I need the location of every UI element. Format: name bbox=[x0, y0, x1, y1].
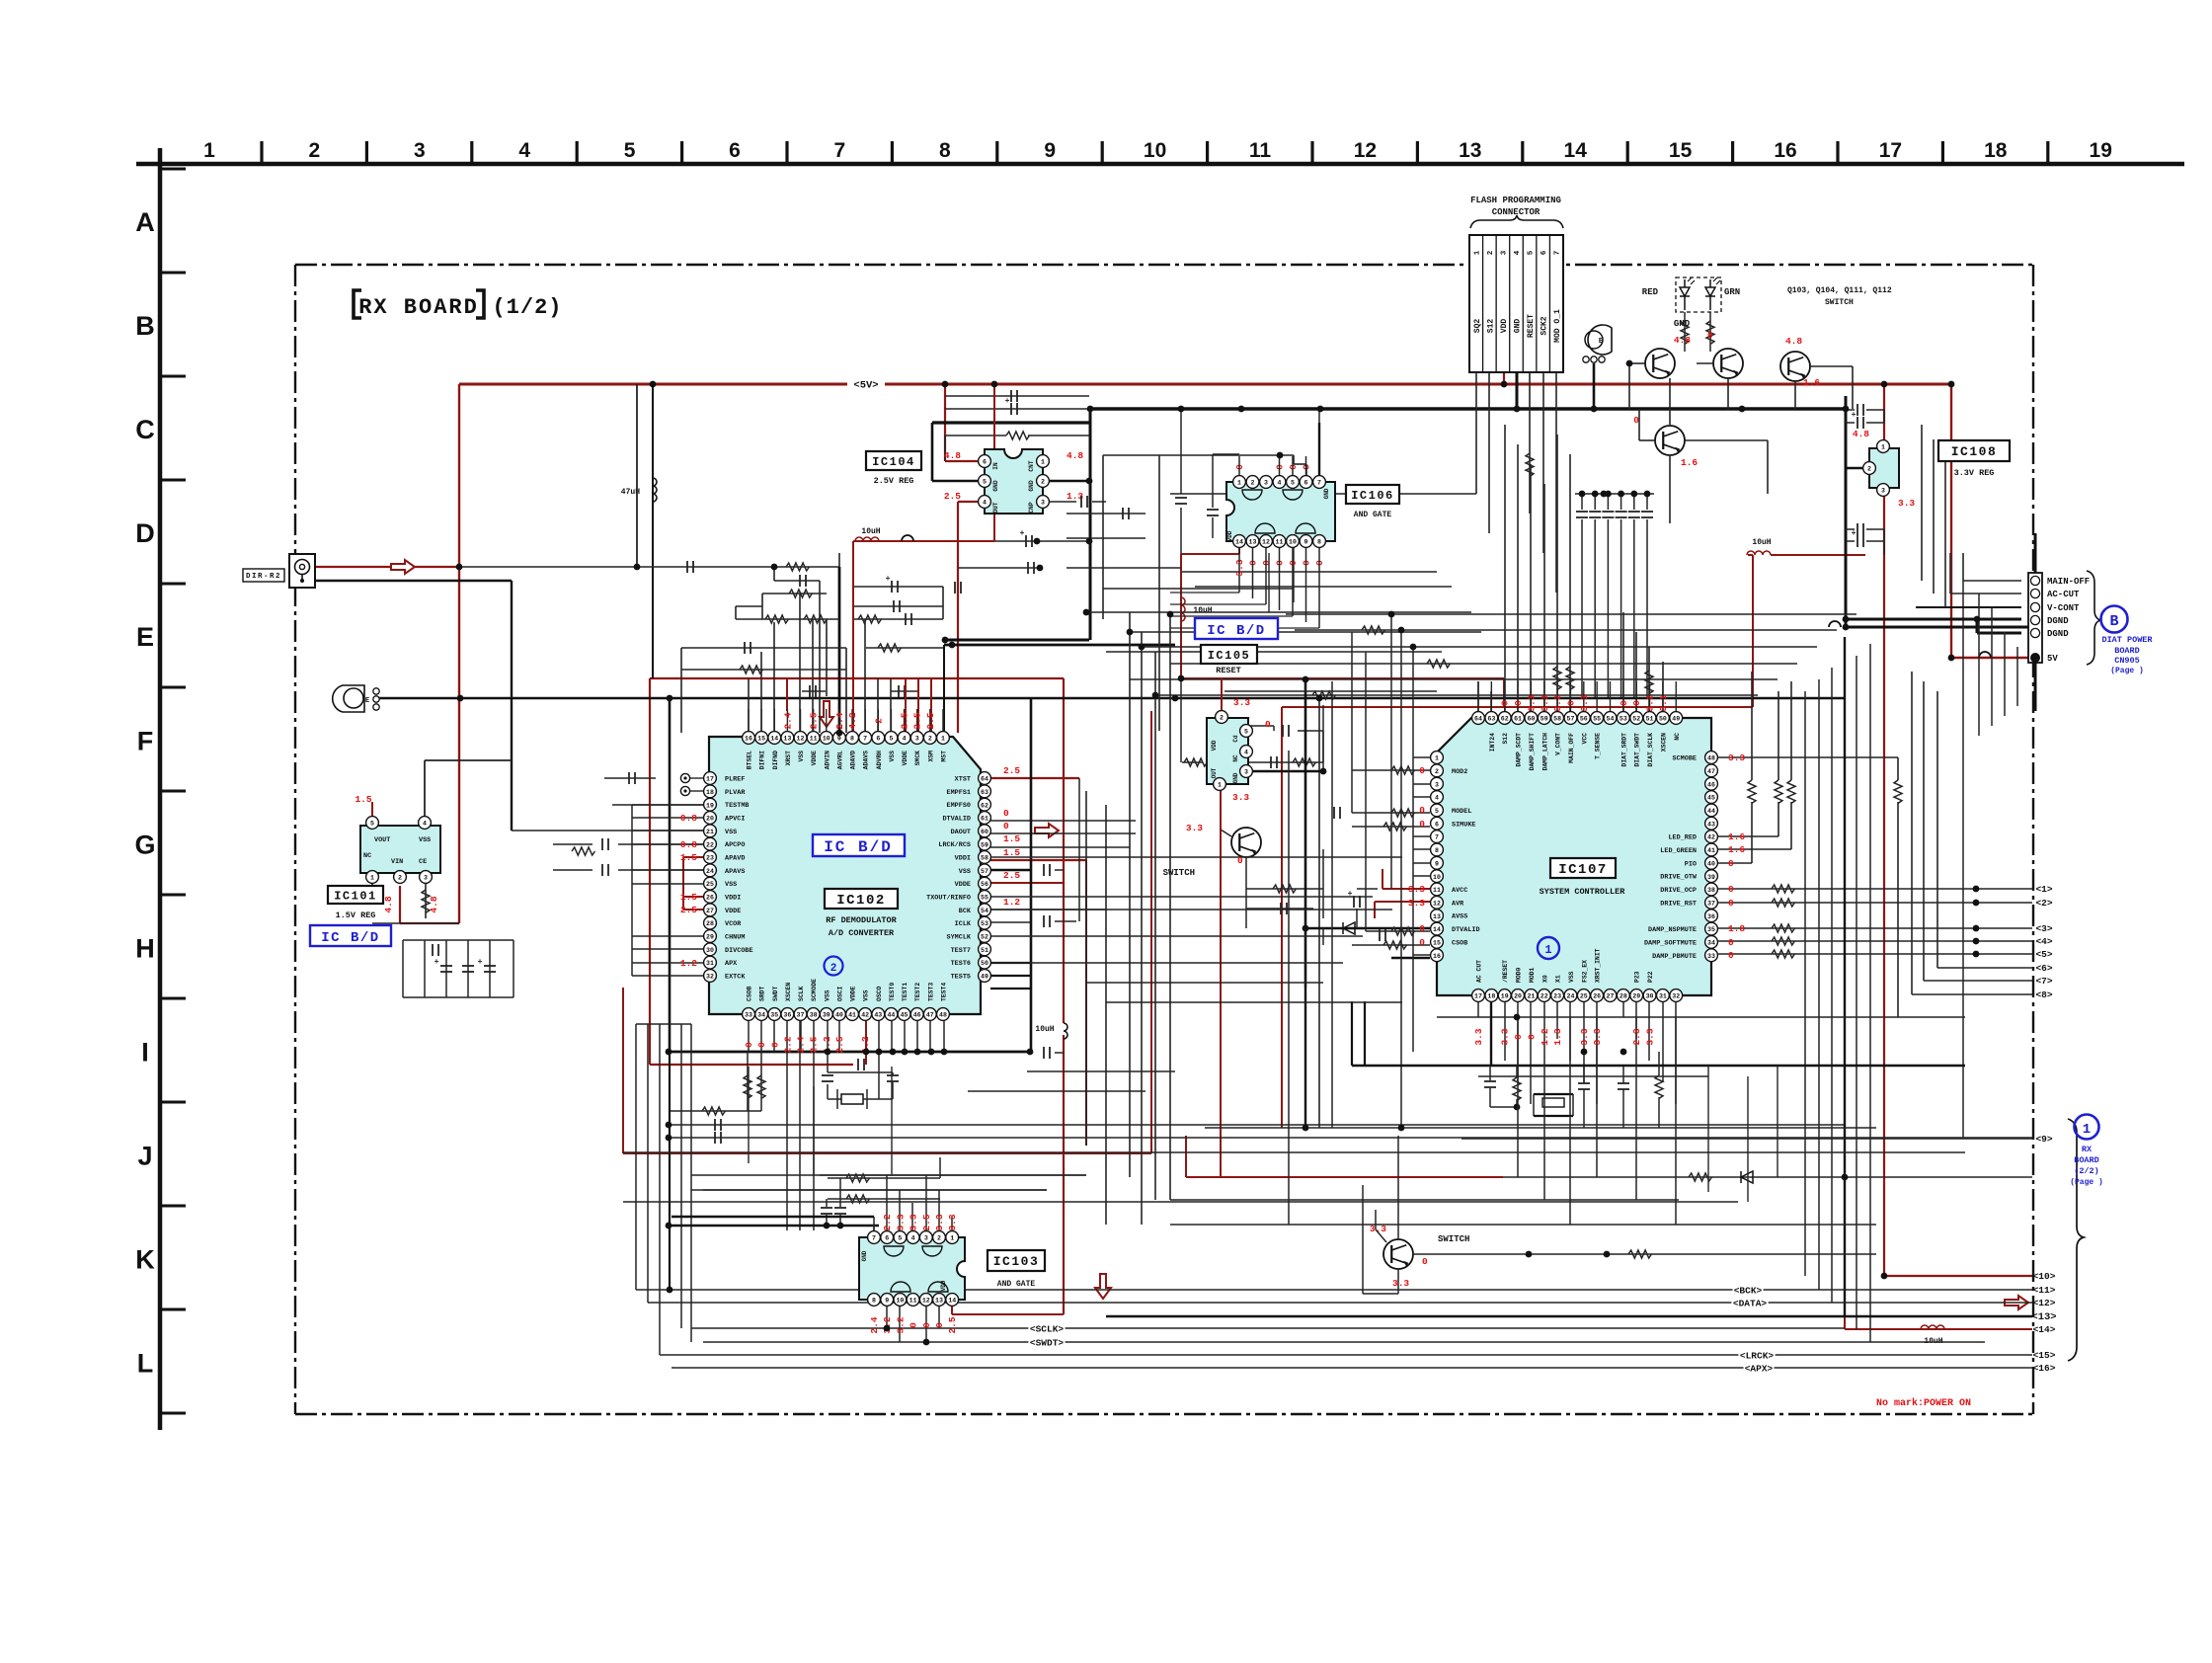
svg-text:0: 0 bbox=[1633, 415, 1639, 426]
svg-text:48: 48 bbox=[939, 1012, 947, 1019]
svg-text:9: 9 bbox=[885, 1298, 889, 1305]
svg-text:61: 61 bbox=[1514, 716, 1522, 723]
svg-text:SQ2: SQ2 bbox=[1473, 319, 1482, 334]
svg-text:10: 10 bbox=[896, 1298, 904, 1305]
5V power rail bbox=[459, 383, 1951, 386]
svg-text:29: 29 bbox=[706, 934, 714, 941]
svg-text:50: 50 bbox=[981, 960, 988, 967]
svg-text:SWITCH: SWITCH bbox=[1438, 1234, 1469, 1244]
svg-text:DIAT POWER: DIAT POWER bbox=[2101, 635, 2153, 645]
IC107 pins left bbox=[1431, 752, 1444, 764]
flash connector wires down bbox=[1475, 372, 1477, 494]
svg-text:16: 16 bbox=[1774, 139, 1796, 162]
wires left of IC102 bbox=[688, 777, 703, 779]
svg-text:4: 4 bbox=[423, 821, 427, 828]
svg-text:DGND: DGND bbox=[2047, 629, 2069, 639]
svg-text:EMPFS0: EMPFS0 bbox=[947, 802, 971, 810]
svg-text:SCLK: SCLK bbox=[798, 986, 805, 1001]
svg-text:8: 8 bbox=[939, 139, 951, 162]
svg-text:SRDT: SRDT bbox=[759, 986, 766, 1001]
svg-text:APCPO: APCPO bbox=[725, 841, 745, 849]
svg-text:10: 10 bbox=[823, 736, 830, 743]
svg-text:0: 0 bbox=[1728, 858, 1734, 869]
svg-text:DAMP_SCDT: DAMP_SCDT bbox=[1516, 733, 1523, 767]
svg-text:7: 7 bbox=[834, 139, 846, 162]
svg-text:42: 42 bbox=[1707, 834, 1715, 841]
svg-text:0: 0 bbox=[908, 1322, 919, 1328]
svg-text:TESTMB: TESTMB bbox=[725, 802, 749, 810]
svg-text:E: E bbox=[1599, 338, 1603, 346]
DIR-R2 black wire bbox=[315, 580, 512, 582]
svg-text:VSS: VSS bbox=[889, 751, 896, 762]
svg-text:VDD: VDD bbox=[1226, 530, 1233, 541]
CN905 connector bbox=[2028, 573, 2042, 663]
svg-text:11: 11 bbox=[810, 736, 818, 743]
IC107 pins right bbox=[1705, 752, 1718, 764]
svg-text:APVCI: APVCI bbox=[725, 815, 745, 823]
svg-text:DRIVE_RST: DRIVE_RST bbox=[1660, 900, 1697, 908]
svg-text:3.3: 3.3 bbox=[934, 1214, 945, 1230]
svg-text:GND: GND bbox=[992, 480, 999, 491]
svg-text:34: 34 bbox=[1707, 940, 1715, 947]
svg-text:5: 5 bbox=[889, 736, 893, 743]
svg-text:GND: GND bbox=[1232, 772, 1239, 783]
svg-text:CN905: CN905 bbox=[2114, 656, 2140, 666]
svg-text:11: 11 bbox=[1433, 887, 1441, 894]
svg-text:SYMCLK: SYMCLK bbox=[947, 933, 972, 941]
svg-text:IC101: IC101 bbox=[334, 889, 377, 903]
board title RX BOARD (1/2) bbox=[354, 290, 361, 318]
svg-text:0: 0 bbox=[744, 1042, 754, 1048]
svg-text:46: 46 bbox=[913, 1012, 921, 1019]
svg-text:Cd: Cd bbox=[1232, 735, 1239, 743]
svg-text:5: 5 bbox=[370, 821, 374, 828]
svg-text:37: 37 bbox=[797, 1012, 805, 1019]
svg-text:2.3: 2.3 bbox=[1631, 1028, 1642, 1045]
svg-text:35: 35 bbox=[1707, 926, 1715, 933]
red wire to conn 14 bbox=[1844, 1177, 1846, 1329]
svg-text:3.3: 3.3 bbox=[1408, 884, 1425, 895]
IC103 top feeders bbox=[873, 1217, 875, 1231]
svg-text:SCMOBE: SCMOBE bbox=[1673, 755, 1697, 763]
svg-text:12: 12 bbox=[922, 1298, 930, 1305]
svg-text:DRIVE_OCP: DRIVE_OCP bbox=[1660, 887, 1697, 895]
svg-text:2: 2 bbox=[937, 1235, 941, 1242]
svg-text:2.5: 2.5 bbox=[680, 905, 697, 915]
svg-text:SCMODE: SCMODE bbox=[811, 979, 818, 1001]
svg-text:0: 0 bbox=[921, 1322, 932, 1328]
svg-text:GND: GND bbox=[861, 1250, 868, 1261]
svg-text:63: 63 bbox=[981, 789, 988, 796]
verticals feeding left pins bbox=[1351, 632, 1353, 813]
svg-text:23: 23 bbox=[1553, 993, 1561, 1000]
svg-text:2: 2 bbox=[1435, 768, 1439, 775]
svg-text:TEST3: TEST3 bbox=[927, 983, 934, 1001]
svg-text:1.5: 1.5 bbox=[1003, 833, 1020, 844]
svg-text:IC B/D: IC B/D bbox=[1207, 623, 1265, 639]
LED indicator bbox=[1676, 277, 1721, 312]
svg-text:31: 31 bbox=[1659, 993, 1667, 1000]
svg-text:3.3: 3.3 bbox=[1579, 1028, 1590, 1045]
extra verticals right bundle bbox=[1978, 594, 1980, 736]
IC102 pins top bbox=[743, 732, 755, 745]
svg-text:X0: X0 bbox=[1541, 975, 1548, 983]
svg-text:1.2: 1.2 bbox=[1003, 897, 1020, 908]
svg-text:0: 0 bbox=[1422, 1256, 1428, 1267]
svg-text:1.6: 1.6 bbox=[1681, 457, 1698, 468]
svg-text:5: 5 bbox=[983, 479, 987, 486]
svg-text:FLASH PROGRAMMING: FLASH PROGRAMMING bbox=[1470, 196, 1561, 205]
wire red VDD flash bbox=[1503, 372, 1505, 384]
svg-text:2.5: 2.5 bbox=[809, 1036, 820, 1053]
svg-text:30: 30 bbox=[1646, 993, 1654, 1000]
svg-text:MAIN_OFF: MAIN_OFF bbox=[1568, 733, 1575, 763]
svg-text:<13>: <13> bbox=[2031, 1311, 2056, 1323]
svg-text:39: 39 bbox=[823, 1012, 830, 1019]
svg-text:XRST_INIT: XRST_INIT bbox=[1595, 948, 1602, 983]
svg-text:2.4: 2.4 bbox=[782, 712, 793, 729]
svg-text:3.3: 3.3 bbox=[1500, 1028, 1511, 1045]
red arrow DAOUT bbox=[1035, 824, 1059, 837]
svg-text:DAMP_SHIFT: DAMP_SHIFT bbox=[1529, 733, 1536, 771]
svg-text:9: 9 bbox=[837, 736, 841, 743]
wire mesh above IC102 bbox=[773, 567, 775, 581]
svg-text:4.8: 4.8 bbox=[1066, 450, 1083, 461]
svg-text:VDD: VDD bbox=[940, 1280, 947, 1291]
svg-text:8: 8 bbox=[850, 736, 854, 743]
svg-text:3: 3 bbox=[1435, 781, 1439, 788]
svg-text:8: 8 bbox=[872, 1298, 876, 1305]
red wire AVCC bbox=[1382, 888, 1430, 890]
svg-text:NC: NC bbox=[1674, 733, 1681, 741]
svg-text:PLREF: PLREF bbox=[725, 776, 745, 784]
svg-text:3.3: 3.3 bbox=[1898, 498, 1915, 509]
svg-text:42: 42 bbox=[861, 1012, 869, 1019]
svg-text:2.5: 2.5 bbox=[834, 1036, 845, 1053]
svg-text:19: 19 bbox=[1501, 993, 1509, 1000]
svg-text:3: 3 bbox=[1041, 500, 1045, 507]
svg-text:CNT: CNT bbox=[1028, 460, 1035, 471]
svg-text:43: 43 bbox=[874, 1012, 882, 1019]
svg-text:AND GATE: AND GATE bbox=[1354, 511, 1392, 519]
svg-text:IC B/D: IC B/D bbox=[824, 838, 893, 856]
svg-text:CSOB: CSOB bbox=[747, 986, 753, 1001]
svg-text:2: 2 bbox=[1220, 715, 1224, 722]
wires heading to bottom left bundle bbox=[669, 1052, 671, 1290]
svg-text:3: 3 bbox=[1881, 488, 1885, 495]
wire red IC108 out 3.3 bbox=[1883, 494, 1885, 1276]
svg-text:LED_RED: LED_RED bbox=[1668, 834, 1697, 842]
svg-text:0: 0 bbox=[1565, 700, 1576, 706]
IC102 pins bottom bbox=[743, 1008, 755, 1021]
svg-text:1.8: 1.8 bbox=[1728, 923, 1745, 934]
svg-text:4: 4 bbox=[1435, 795, 1439, 802]
svg-text:TEST6: TEST6 bbox=[951, 960, 971, 968]
svg-text:0: 0 bbox=[1728, 898, 1734, 909]
red wire IC105 reset rail bbox=[1180, 554, 1182, 678]
svg-text:+: + bbox=[1852, 411, 1856, 420]
svg-text:52: 52 bbox=[981, 934, 988, 941]
IC102 label bbox=[825, 889, 898, 909]
svg-text:MOD1: MOD1 bbox=[1529, 967, 1536, 983]
svg-text:10: 10 bbox=[1433, 874, 1441, 881]
E symbol top right bbox=[1588, 325, 1612, 355]
svg-text:36: 36 bbox=[1707, 913, 1715, 920]
svg-text:55: 55 bbox=[1593, 716, 1601, 723]
svg-text:3.2: 3.2 bbox=[895, 1316, 906, 1333]
wire red 3.3 coil net bbox=[1771, 554, 1865, 556]
svg-text:1.6: 1.6 bbox=[1803, 377, 1820, 388]
svg-text:1.2: 1.2 bbox=[680, 958, 697, 969]
svg-text:27: 27 bbox=[1607, 993, 1615, 1000]
svg-text:(2/2): (2/2) bbox=[2074, 1166, 2099, 1176]
IC101 wiring bbox=[371, 802, 373, 816]
svg-text:+: + bbox=[886, 575, 891, 584]
risers to CN905 rows bbox=[1921, 425, 1923, 581]
svg-text:<DATA>: <DATA> bbox=[1733, 1299, 1768, 1309]
cap row above IC107 bbox=[1575, 493, 1654, 495]
svg-text:60: 60 bbox=[1527, 716, 1535, 723]
svg-text:DIFND: DIFND bbox=[772, 751, 779, 769]
vertical feeders to top pins bbox=[748, 678, 750, 733]
red wire IC105 pin1 bbox=[1220, 790, 1222, 1177]
svg-text:13: 13 bbox=[1433, 913, 1441, 920]
svg-text:DIVCOBE: DIVCOBE bbox=[725, 947, 753, 955]
svg-text:0: 0 bbox=[769, 1042, 780, 1048]
svg-text:+: + bbox=[478, 958, 483, 967]
svg-text:MST: MST bbox=[940, 751, 947, 762]
svg-text:4.8: 4.8 bbox=[383, 896, 394, 912]
svg-text:XSCEN: XSCEN bbox=[1660, 733, 1667, 752]
svg-text:23: 23 bbox=[706, 855, 714, 862]
svg-text:IC102: IC102 bbox=[836, 893, 886, 909]
svg-text:0: 0 bbox=[1707, 330, 1713, 341]
svg-text:47: 47 bbox=[1707, 768, 1715, 775]
svg-text:37: 37 bbox=[1707, 900, 1715, 907]
svg-text:19: 19 bbox=[2090, 139, 2112, 162]
svg-text:1: 1 bbox=[950, 1235, 954, 1242]
wire red 5V to CN905 bbox=[1950, 384, 1952, 658]
svg-text:48: 48 bbox=[1707, 755, 1715, 762]
svg-text:3.3: 3.3 bbox=[1579, 694, 1590, 711]
svg-text:4.8: 4.8 bbox=[429, 896, 439, 912]
svg-text:VSS: VSS bbox=[1568, 971, 1575, 983]
svg-text:5: 5 bbox=[1291, 480, 1295, 487]
svg-text:13: 13 bbox=[1459, 139, 1481, 162]
svg-text:APAVS: APAVS bbox=[725, 868, 745, 876]
board outline frame bbox=[295, 264, 2033, 266]
svg-text:2: 2 bbox=[830, 963, 837, 975]
svg-text:2.5V REG: 2.5V REG bbox=[874, 476, 914, 486]
svg-text:4: 4 bbox=[983, 500, 987, 507]
svg-text:1.5: 1.5 bbox=[355, 794, 371, 805]
svg-text:21: 21 bbox=[1527, 993, 1535, 1000]
svg-text:EXTCK: EXTCK bbox=[725, 973, 746, 981]
svg-text:2.5: 2.5 bbox=[1003, 870, 1020, 881]
svg-text:0: 0 bbox=[1631, 700, 1642, 706]
svg-text:LRCK/RCS: LRCK/RCS bbox=[938, 841, 971, 849]
diode row bbox=[1305, 927, 1430, 930]
svg-text:AC-CUT: AC-CUT bbox=[2047, 590, 2080, 599]
svg-text:0: 0 bbox=[1419, 819, 1425, 830]
svg-text:<8>: <8> bbox=[2035, 990, 2052, 1000]
svg-text:64: 64 bbox=[1474, 716, 1482, 723]
caps left of IC102 bbox=[604, 777, 656, 779]
svg-text:G: G bbox=[134, 830, 155, 859]
svg-text:GND: GND bbox=[1323, 488, 1330, 499]
svg-text:(1/2): (1/2) bbox=[492, 295, 562, 320]
svg-text:2.2: 2.2 bbox=[882, 1214, 893, 1230]
svg-text:XRST: XRST bbox=[785, 751, 792, 766]
svg-text:APX: APX bbox=[725, 960, 738, 968]
svg-text:SYSTEM CONTROLLER: SYSTEM CONTROLLER bbox=[1540, 887, 1626, 897]
transistor Q104 bbox=[1713, 349, 1743, 378]
svg-text:0: 0 bbox=[756, 1042, 767, 1048]
IC107 pins top bbox=[1472, 712, 1485, 725]
svg-text:0: 0 bbox=[1419, 937, 1425, 948]
svg-text:B: B bbox=[2109, 613, 2118, 630]
circled B bbox=[2101, 606, 2128, 633]
svg-text:(Page ): (Page ) bbox=[2070, 1178, 2103, 1187]
svg-text:35: 35 bbox=[770, 1012, 778, 1019]
caps near AVCC bbox=[1357, 888, 1378, 890]
svg-text:0: 0 bbox=[1237, 855, 1243, 866]
LED resistors bbox=[1684, 312, 1686, 352]
svg-text:25: 25 bbox=[1580, 993, 1588, 1000]
svg-text:OUT: OUT bbox=[992, 502, 999, 513]
svg-text:1: 1 bbox=[941, 736, 945, 743]
svg-text:8: 8 bbox=[1435, 847, 1439, 854]
svg-text:1.2: 1.2 bbox=[1540, 1028, 1550, 1045]
svg-text:32: 32 bbox=[706, 974, 714, 981]
circled 1 RX BOARD bbox=[2068, 1119, 2084, 1361]
svg-text:24: 24 bbox=[706, 868, 714, 875]
svg-text:9: 9 bbox=[1044, 139, 1056, 162]
svg-text:XSM: XSM bbox=[927, 751, 934, 762]
svg-text:TEST1: TEST1 bbox=[902, 983, 908, 1001]
svg-text:DIAT_SCLK: DIAT_SCLK bbox=[1647, 733, 1654, 767]
svg-text:RF DEMODULATOR: RF DEMODULATOR bbox=[826, 915, 897, 925]
ruler row ticks bbox=[160, 168, 186, 171]
svg-text:<5>: <5> bbox=[2035, 949, 2052, 960]
thick wire from pin1 area bbox=[944, 644, 1175, 647]
bus segment IC104 top bbox=[945, 408, 1089, 410]
svg-text:3.3: 3.3 bbox=[1392, 1278, 1409, 1289]
svg-text:F: F bbox=[137, 726, 154, 755]
svg-text:12: 12 bbox=[797, 736, 805, 743]
svg-text:11: 11 bbox=[1276, 539, 1284, 546]
svg-text:64: 64 bbox=[981, 776, 988, 783]
svg-text:3: 3 bbox=[1264, 480, 1268, 487]
svg-text:0: 0 bbox=[1419, 765, 1425, 776]
svg-text:21: 21 bbox=[706, 829, 714, 835]
svg-text:59: 59 bbox=[981, 841, 988, 848]
pin42 41 40 up turns bbox=[1718, 835, 1778, 837]
svg-text:MAIN-OFF: MAIN-OFF bbox=[2047, 577, 2090, 587]
wires right of IC107 bbox=[1718, 888, 2032, 890]
svg-text:IC108: IC108 bbox=[1951, 444, 1998, 459]
svg-text:3.3: 3.3 bbox=[908, 1214, 919, 1230]
svg-text:<SCLK>: <SCLK> bbox=[1030, 1324, 1065, 1335]
svg-text:4.8: 4.8 bbox=[1853, 429, 1869, 439]
svg-text:14: 14 bbox=[1235, 539, 1243, 546]
svg-text:0: 0 bbox=[1526, 1034, 1537, 1040]
IC104 wire loop bbox=[931, 423, 934, 481]
svg-text:RX: RX bbox=[2082, 1145, 2093, 1154]
svg-text:2.5: 2.5 bbox=[944, 491, 961, 502]
svg-text:0: 0 bbox=[1728, 937, 1734, 948]
svg-text:46: 46 bbox=[1707, 781, 1715, 788]
svg-text:DAMP_PBMUTE: DAMP_PBMUTE bbox=[1652, 953, 1697, 961]
svg-text:IC103: IC103 bbox=[993, 1254, 1040, 1269]
svg-text:59: 59 bbox=[1540, 716, 1548, 723]
svg-text:AGVRL: AGVRL bbox=[836, 751, 843, 769]
svg-text:+: + bbox=[1020, 529, 1025, 538]
svg-text:VSS: VSS bbox=[959, 868, 971, 876]
svg-text:2.2: 2.2 bbox=[782, 1036, 793, 1053]
svg-text:7: 7 bbox=[872, 1235, 876, 1242]
IC106 label bbox=[1346, 485, 1399, 504]
svg-text:VCC: VCC bbox=[1581, 733, 1588, 745]
svg-text:DAOUT: DAOUT bbox=[951, 829, 971, 836]
svg-text:27: 27 bbox=[706, 908, 714, 914]
flash programming connector bbox=[1469, 235, 1563, 372]
IC107 pins bottom bbox=[1472, 990, 1485, 1002]
svg-text:S12: S12 bbox=[1502, 733, 1509, 745]
svg-text:1: 1 bbox=[370, 875, 374, 882]
wire mesh below IC107 bbox=[1477, 1001, 1479, 1017]
ruler column ticks bbox=[260, 141, 263, 164]
caps cluster left of IC103 bbox=[828, 1177, 940, 1179]
svg-text:V-CONT: V-CONT bbox=[2047, 603, 2080, 613]
svg-text:26: 26 bbox=[1593, 993, 1601, 1000]
svg-text:2.5: 2.5 bbox=[900, 712, 910, 729]
svg-text:3.3: 3.3 bbox=[1728, 752, 1745, 763]
wires to CN905 bbox=[1963, 580, 2021, 582]
svg-text:20: 20 bbox=[706, 816, 714, 823]
IC105 reset body bbox=[1207, 718, 1248, 784]
crossing horizontals center bbox=[1086, 611, 1471, 613]
svg-text:14: 14 bbox=[1433, 926, 1441, 933]
IC105 surroundings bbox=[1246, 725, 1274, 727]
svg-text:B: B bbox=[135, 311, 155, 341]
svg-text:7: 7 bbox=[1554, 251, 1562, 256]
red down arrow below IC103 bbox=[1095, 1274, 1111, 1299]
svg-text:11: 11 bbox=[1249, 139, 1272, 162]
svg-text:A/D CONVERTER: A/D CONVERTER bbox=[829, 928, 895, 938]
svg-text:14: 14 bbox=[948, 1298, 956, 1305]
svg-text:VDDE: VDDE bbox=[902, 751, 908, 766]
svg-text:3.3: 3.3 bbox=[1526, 694, 1537, 711]
svg-text:TEST2: TEST2 bbox=[914, 983, 921, 1001]
svg-text:ADVRH: ADVRH bbox=[876, 751, 883, 769]
IC106 wires bbox=[1238, 456, 1240, 475]
svg-text:INT24: INT24 bbox=[1489, 733, 1496, 752]
svg-text:3.3: 3.3 bbox=[1233, 697, 1250, 708]
transistor Q103 bbox=[1645, 349, 1675, 378]
caps below IC101 bbox=[424, 940, 426, 997]
circled 1 in IC107 bbox=[1538, 937, 1559, 959]
svg-text:36: 36 bbox=[783, 1012, 791, 1019]
svg-text:VDD: VDD bbox=[1500, 319, 1509, 334]
svg-text:<BCK>: <BCK> bbox=[1734, 1286, 1763, 1297]
crystal caps IC107 bbox=[1534, 1093, 1573, 1095]
svg-text:RESET: RESET bbox=[1216, 666, 1241, 675]
svg-text:3.3: 3.3 bbox=[1408, 898, 1425, 909]
svg-text:3.2: 3.2 bbox=[1552, 694, 1563, 711]
IC107 label bbox=[1550, 858, 1616, 878]
svg-text:2.4: 2.4 bbox=[796, 1036, 807, 1053]
